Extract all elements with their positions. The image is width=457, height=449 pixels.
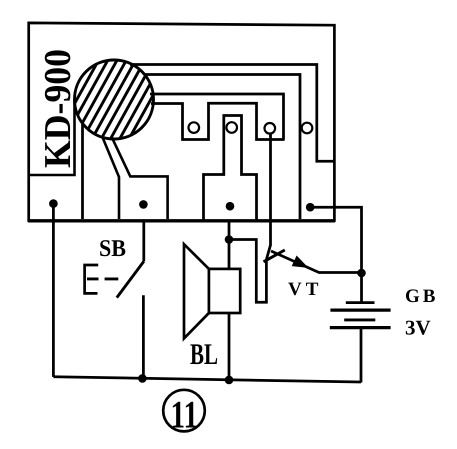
wire meander junction to VT base xyxy=(229,240,266,303)
pad 2 cell with bond trace from chip xyxy=(103,137,168,219)
junction dot bus / SB xyxy=(138,374,147,383)
battery GB plates xyxy=(330,303,391,328)
label 3V xyxy=(405,316,431,340)
wire pad 1 down to bottom bus xyxy=(52,204,55,377)
meander trace around pad holes H1 H2 xyxy=(151,103,285,139)
svg-text:KD-900: KD-900 xyxy=(37,49,79,168)
svg-text:BL: BL xyxy=(190,338,218,371)
wire battery negative down to bus xyxy=(360,328,363,383)
wire pad hole H3 down to transistor xyxy=(266,134,270,260)
pad hole H2 xyxy=(226,122,237,133)
pad hole H1 xyxy=(189,122,200,133)
svg-text:SB: SB xyxy=(99,236,126,262)
transistor VT xyxy=(264,250,362,273)
svg-text:3V: 3V xyxy=(405,316,431,340)
wire speaker down to bus xyxy=(228,313,231,381)
pedestal trace from hole H2 down to pad 3 xyxy=(204,116,257,221)
label BL xyxy=(190,338,218,371)
pad 1 terminal dot xyxy=(49,199,58,208)
label SB xyxy=(99,236,126,262)
figure number 11 xyxy=(163,390,205,437)
trace A (top copper finger to right side) xyxy=(130,65,335,162)
text KD-900 xyxy=(37,49,79,168)
board outline (KD-900 music module PCB) xyxy=(28,23,335,221)
wire pad 2 down to switch SB xyxy=(142,221,145,261)
label GB xyxy=(405,286,438,307)
label VT xyxy=(288,279,322,300)
pad 2 terminal dot xyxy=(139,200,148,209)
svg-text:VT: VT xyxy=(288,279,322,300)
pad 4 terminal dot xyxy=(306,203,315,212)
junction dot emitter / battery rail xyxy=(357,269,366,278)
switch SB (pushbutton) xyxy=(85,261,144,297)
trace C (third copper finger) xyxy=(150,94,284,140)
bottom bus wire xyxy=(53,377,361,382)
speaker BL xyxy=(184,244,240,338)
svg-text:GB: GB xyxy=(405,286,438,307)
junction dot bus / BL xyxy=(225,376,234,385)
wire pad 4 to battery positive rail xyxy=(310,207,362,302)
divider between pad 1 and pad 2 xyxy=(81,123,84,220)
junction dot speaker top xyxy=(225,235,234,244)
wire switch SB down to bus xyxy=(142,295,145,379)
pad 3 terminal dot xyxy=(226,202,235,211)
IC chip blob U1 (hatched COB on board) xyxy=(52,55,176,145)
label frame around KD-900 text xyxy=(29,100,75,175)
svg-text:11: 11 xyxy=(171,394,199,437)
trace B (second copper finger down to pad 4 wall) xyxy=(144,75,300,220)
wire pad 3 down to speaker xyxy=(228,221,231,269)
pad hole H4 xyxy=(302,123,313,134)
pad hole H3 xyxy=(265,123,276,134)
